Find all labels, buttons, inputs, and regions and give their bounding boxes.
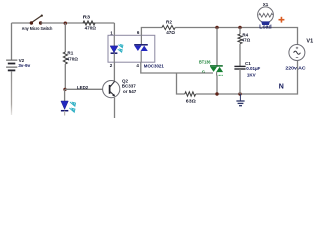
label G [202, 70, 206, 75]
lamp X1 [258, 7, 274, 25]
svg-text:R2: R2 [166, 20, 172, 25]
label R2 [166, 20, 172, 25]
source V1 [289, 45, 305, 61]
wire switch to pin1 corner [41, 22, 115, 24]
label BT136 [199, 60, 211, 65]
resistor 63ohm [185, 92, 196, 96]
label Load [259, 25, 271, 31]
node snubber tap [238, 26, 241, 29]
svg-text:R1: R1 [67, 51, 73, 56]
label Any Micro Switch [22, 26, 53, 31]
pin 2 label [110, 63, 113, 68]
wire gate branch down [177, 73, 185, 94]
label R4 [242, 33, 248, 38]
svg-text:63Ω: 63Ω [186, 99, 196, 104]
wire R1 bottom to junction [64, 64, 66, 89]
wire bottom AC rail [196, 61, 298, 94]
wire R1 top lead [64, 23, 66, 52]
wire left vertical down to battery [11, 23, 13, 60]
label 63ohm [186, 99, 196, 104]
switch S1 Any Micro Switch [30, 15, 43, 25]
svg-text:G: G [202, 70, 206, 75]
svg-text:220v AC: 220v AC [285, 66, 306, 72]
wire top-left horizontal to switch [12, 22, 32, 24]
svg-text:X1: X1 [263, 2, 269, 7]
wire pin6 up and right to R2 [141, 28, 162, 36]
pin 6 label [137, 30, 140, 35]
resistor R4 lead [239, 28, 241, 35]
node snubber/ground junction [238, 92, 241, 95]
resistor R1 [63, 52, 67, 64]
svg-text:or 547: or 547 [123, 89, 137, 94]
label Q2 [122, 78, 129, 83]
label 47ohm R2 [166, 30, 175, 35]
triac BT136 [210, 66, 223, 76]
transistor Q2 [103, 81, 120, 119]
wire R2 to V1 corner (top AC rail) [175, 28, 297, 45]
wire pin1 vertical [113, 23, 115, 35]
label R1 [67, 51, 73, 56]
wire pin2 to Q2 collector [113, 62, 115, 81]
label 0.01uF [246, 66, 260, 71]
wire triac MT2 vertical [216, 28, 218, 67]
svg-text:R3: R3 [83, 14, 91, 19]
svg-text:47Ω: 47Ω [242, 38, 251, 43]
label LED2 [77, 85, 89, 90]
label MOC3021 [144, 63, 165, 68]
wire triac MT1 down [216, 75, 218, 94]
wire C1 to rail [239, 69, 241, 94]
LED2 light arrows [69, 102, 75, 112]
wire R4 to C1 [239, 44, 241, 66]
svg-text:3v-9v: 3v-9v [18, 63, 30, 68]
resistor R3 [83, 21, 95, 25]
svg-text:47Ω: 47Ω [166, 30, 175, 35]
svg-text:Q2: Q2 [122, 78, 129, 83]
wire battery negative down (fading) [11, 71, 13, 115]
svg-text:LED2: LED2 [77, 85, 89, 90]
node triac MT1 junction [215, 92, 218, 95]
pin 4 label [136, 63, 139, 68]
svg-text:BT136: BT136 [199, 60, 211, 65]
label R3 [83, 14, 91, 19]
pin 1 label [110, 31, 113, 36]
battery V2 [6, 60, 17, 70]
label 470ohm R1 [67, 56, 79, 61]
node triac tap [215, 26, 218, 29]
label or 547 [123, 89, 137, 94]
opto triac internal [134, 35, 148, 62]
opto LED [110, 46, 118, 62]
svg-text:1KV: 1KV [247, 72, 256, 77]
wire LED2 anode [64, 89, 66, 101]
wire base [65, 88, 103, 90]
label BC337 [122, 83, 137, 88]
svg-text:Load: Load [259, 25, 271, 31]
capacitor C1 [234, 66, 245, 69]
label 1KV [247, 72, 256, 77]
svg-text:C1: C1 [245, 61, 251, 66]
opto LED internal lead [113, 35, 115, 46]
svg-text:V2: V2 [19, 58, 25, 63]
svg-text:V1: V1 [306, 38, 313, 44]
LED2 [61, 101, 68, 116]
svg-text:N: N [279, 83, 284, 90]
label 3v-9v [18, 63, 30, 68]
svg-text:BC337: BC337 [122, 83, 137, 88]
label V2 [19, 58, 25, 63]
svg-text:R4: R4 [242, 33, 248, 38]
svg-text:0.01µF: 0.01µF [246, 66, 260, 71]
label N [279, 83, 284, 90]
svg-text:MOC3021: MOC3021 [144, 63, 165, 68]
plus polarity mark [279, 17, 285, 23]
label 220v AC [285, 66, 306, 72]
node junction base/LED2 [63, 88, 66, 91]
resistor R2 [162, 25, 175, 29]
node junction R1 tap [64, 22, 67, 25]
label X1 [263, 2, 269, 7]
svg-text:Any Micro Switch: Any Micro Switch [22, 26, 53, 31]
resistor R4 [238, 34, 242, 44]
optocoupler U1 MOC3021 box [108, 35, 155, 62]
label C1 [245, 61, 251, 66]
label 470ohm R3 [85, 26, 97, 31]
svg-text:470Ω: 470Ω [67, 56, 79, 61]
label V1 [306, 38, 313, 44]
ground [236, 94, 244, 106]
opto light arrows [118, 45, 123, 53]
label 47ohm R4 [242, 38, 251, 43]
wire pin4 to gate [141, 62, 213, 73]
svg-text:470Ω: 470Ω [85, 26, 97, 31]
